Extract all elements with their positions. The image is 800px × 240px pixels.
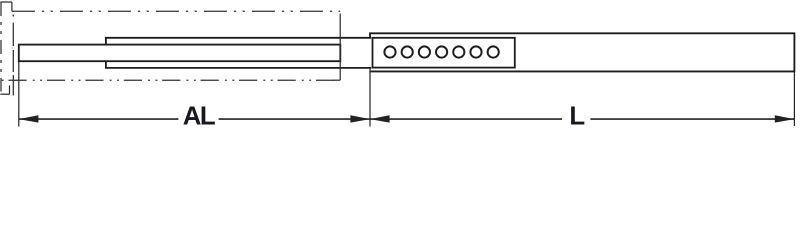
svg-text:L: L xyxy=(569,103,585,129)
svg-text:AL: AL xyxy=(183,103,215,129)
